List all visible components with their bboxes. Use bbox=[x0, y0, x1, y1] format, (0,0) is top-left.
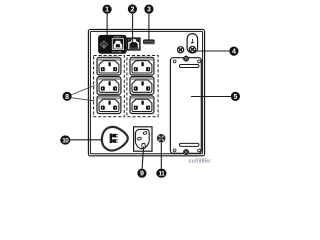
door bottom screw bbox=[183, 149, 189, 155]
wire callout11 bbox=[160, 143, 162, 169]
wire callout1 bbox=[106, 14, 108, 36]
door top-right rivet bbox=[198, 60, 201, 63]
door bottom slot bbox=[180, 143, 199, 146]
outlet row1 left bbox=[97, 57, 121, 75]
svg-text:3: 3 bbox=[147, 7, 151, 14]
outlet row3 right bbox=[130, 96, 154, 114]
callout 5 bbox=[231, 92, 240, 101]
callout 11 bbox=[156, 169, 166, 178]
left outlet group dashed border bbox=[94, 56, 125, 117]
outlet row1 right bbox=[130, 57, 154, 75]
outlet row3 left bbox=[97, 96, 121, 114]
left screw bbox=[178, 47, 184, 53]
callout 1 bbox=[103, 5, 112, 14]
door top slot bbox=[180, 65, 199, 68]
tiny white labels in surge box bbox=[112, 36, 124, 54]
chassis screw (callout 11 target) bbox=[157, 134, 166, 143]
callout 2 bbox=[128, 4, 137, 13]
callout 4 bbox=[229, 47, 238, 56]
svg-text:1: 1 bbox=[105, 7, 109, 14]
svg-text:4: 4 bbox=[232, 49, 236, 56]
door top screw bbox=[183, 56, 189, 62]
svg-text:10BASE-T: 10BASE-T bbox=[113, 36, 124, 39]
svg-text:11: 11 bbox=[159, 171, 166, 178]
svg-text:9: 9 bbox=[140, 171, 144, 178]
svg-text:SPL/LINE: SPL/LINE bbox=[112, 52, 122, 54]
UPS rear panel outer case bbox=[88, 29, 204, 155]
screw in stadium (callout 4 target) bbox=[189, 46, 195, 52]
wire callout4 bbox=[195, 50, 230, 52]
RJ45 serial port (callout 2 target) bbox=[128, 38, 140, 50]
svg-text:5: 5 bbox=[233, 94, 237, 101]
svg-text:8: 8 bbox=[65, 94, 69, 101]
svg-text:10: 10 bbox=[62, 138, 69, 145]
outlet row2 right bbox=[130, 77, 154, 95]
wire callout2 bbox=[132, 14, 134, 43]
door bottom-left rivet bbox=[173, 149, 176, 152]
door top-left rivet bbox=[173, 60, 176, 63]
callout 9 bbox=[137, 169, 146, 178]
outlet row2 left bbox=[97, 77, 121, 95]
callout 3 bbox=[144, 5, 153, 14]
svg-text:2: 2 bbox=[130, 7, 134, 14]
wire callout10 bbox=[70, 139, 103, 141]
svg-text:su0986c: su0986c bbox=[189, 158, 211, 164]
RJ45 jack white icon in surge box bbox=[112, 39, 123, 50]
data-line surge suppression box (black) bbox=[99, 35, 127, 53]
IEC C14 inlet (callout 9 target) bbox=[134, 127, 152, 151]
callout 8 bbox=[63, 92, 72, 101]
surge diamond symbol bbox=[100, 41, 107, 48]
callout 10 bbox=[60, 135, 70, 144]
wire callout9 bbox=[142, 147, 144, 169]
door bottom-right rivet bbox=[198, 149, 201, 152]
TVSS ground screw stadium bbox=[187, 34, 198, 53]
circuit breaker (callout 10 target) bbox=[102, 127, 128, 151]
wire callout8 lower bbox=[71, 98, 94, 101]
right outlet group dashed border bbox=[127, 56, 158, 117]
wire callout8 upper bbox=[71, 85, 94, 94]
battery compartment door (callout 5 target) bbox=[170, 58, 201, 154]
USB port (callout 3 target) bbox=[143, 39, 155, 44]
wire callout3 bbox=[148, 14, 150, 40]
wire callout5 bbox=[191, 96, 231, 98]
